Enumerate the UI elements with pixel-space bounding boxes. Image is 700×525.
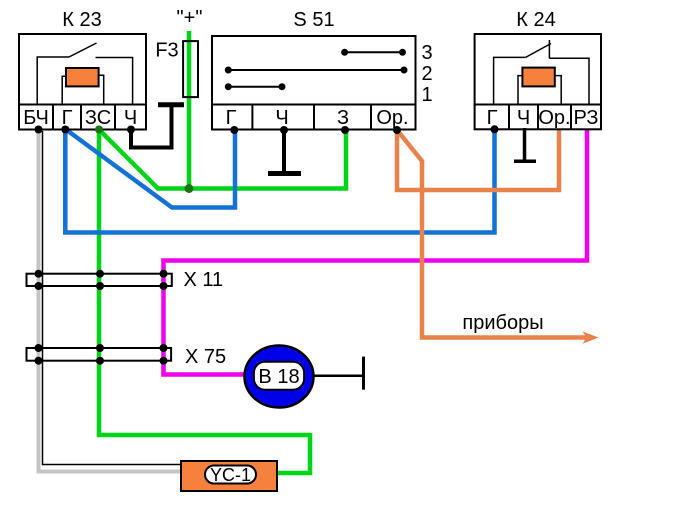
relay K23 coil lead right [99,75,104,104]
node S51 Ч [280,126,288,134]
S51 terminal row [212,105,416,130]
wire: blue K23 Г to S51 Г [65,129,235,208]
wire: green K23 ЗС to S51 З [99,130,346,189]
S51 contact line 2 [228,69,404,71]
wire: black K23 Ч to ground [131,104,172,148]
svg-text:S 51: S 51 [293,9,334,31]
ground under S51 Ч [282,130,286,172]
ground bar near F3 [158,102,184,107]
svg-text:F3: F3 [155,40,178,62]
svg-text:Ч: Ч [275,107,288,129]
relay K23 switch blade [69,43,97,57]
device B18 [245,346,314,408]
svg-text:К 23: К 23 [62,9,101,31]
wire: orange S51 Ор to приборы arrow [397,130,586,338]
wire: blue K23 Г to K24 Г [65,129,494,233]
relay K23 body [19,34,146,105]
svg-text:Г: Г [62,107,73,129]
svg-text:БЧ: БЧ [23,107,49,129]
device YC-1 [181,461,277,491]
relay K24 coil lead left [518,76,522,105]
relay K23 coil lead left [62,76,66,104]
S51 contact line 3 [345,51,403,53]
arrowhead приборы [583,332,599,344]
wire: orange S51 Ор to K24 Ор [397,129,559,190]
connector X11 [27,274,172,286]
node S51 Г [230,126,238,134]
node S51 З [341,126,349,134]
wire: thin black from K23 БЧ to YC-1 [43,131,182,465]
svg-text:Ч: Ч [517,107,530,129]
svg-text:X 11: X 11 [184,269,224,291]
relay K24 switch right arm [549,58,589,104]
svg-text:З: З [337,107,349,129]
connector X75 [27,348,172,361]
node K24 Г [491,125,499,133]
node: green junction at F3 feed [185,184,194,193]
fuse F3 [183,41,198,97]
S51 contact line 1 [228,86,282,88]
relay K23 switch left arm [37,57,69,105]
svg-text:2: 2 [421,63,432,85]
svg-text:"+": "+" [177,7,203,29]
relay K23 coil [66,68,99,86]
wire: gray from K23 БЧ to YC-1 [39,129,182,472]
relay K24 switch contact post [548,40,550,58]
wire: green K23 ЗС down to YC-1 [99,130,310,474]
svg-text:РЗ: РЗ [574,107,599,129]
node K23 Г [61,126,69,134]
svg-text:X 75: X 75 [185,346,226,368]
node K23 ЗС [95,126,103,134]
relay K24 body [475,34,601,105]
relay K24 coil [522,68,554,87]
svg-text:К 24: К 24 [516,9,555,31]
relay K24 terminal row [475,105,601,130]
svg-text:Г: Г [226,107,237,129]
relay K24 coil lead right [555,76,561,105]
wire: green "+" feed through fuse F3 [187,31,192,189]
relay K23 switch right arm [96,58,133,105]
svg-text:1: 1 [421,84,432,106]
relay K24 switch blade [526,44,551,58]
svg-text:YC-1: YC-1 [210,465,251,485]
relay K23 terminal row [19,105,146,130]
wire: magenta K24 РЗ to B18 [164,129,588,375]
svg-text:В 18: В 18 [258,366,299,388]
connector X75 pins [35,344,43,352]
svg-text:3: 3 [421,42,432,64]
svg-text:Ор.: Ор. [376,107,408,129]
relay K24 switch left arm [494,57,526,104]
connector X11 pins [35,270,43,278]
node K23 БЧ [35,126,43,134]
ground under K24 Ч [523,128,527,160]
svg-text:Ор.: Ор. [538,107,570,129]
switch S51 body [212,36,416,105]
node S51 Ор [393,126,401,134]
node K23 Ч [127,126,135,134]
B18 ground bar [362,357,365,390]
svg-text:приборы: приборы [462,312,543,334]
B18 ground lead [313,375,362,378]
